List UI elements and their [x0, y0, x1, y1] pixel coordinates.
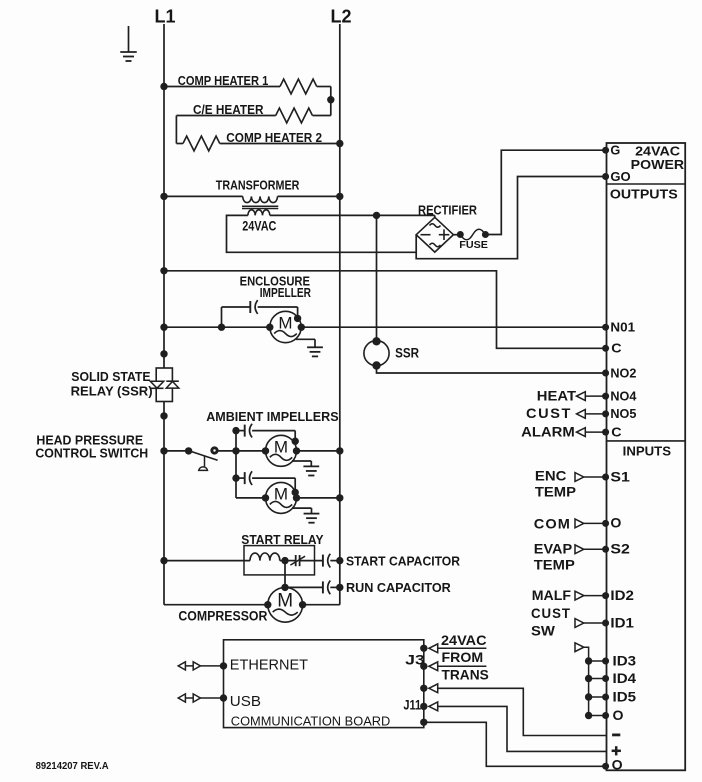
connector J3 pin 1 — [420, 645, 427, 652]
svg-text:24VAC: 24VAC — [635, 144, 680, 158]
svg-text:INPUTS: INPUTS — [623, 444, 671, 458]
svg-text:O: O — [612, 757, 623, 772]
svg-text:L1: L1 — [155, 7, 176, 27]
svg-text:M: M — [277, 590, 293, 611]
ground enclosure impeller — [296, 338, 315, 340]
ground ambient impeller 1 — [292, 460, 311, 462]
wire L1 to compressor — [164, 604, 268, 606]
node junction start relay / compressor start winding — [281, 557, 288, 564]
wire switch to impeller branch — [217, 450, 236, 452]
wire ambient branch vertical — [235, 431, 237, 498]
resistor COMP HEATER 2 — [176, 143, 183, 145]
wire L2 bus — [339, 24, 341, 605]
wire rectifier plus to fuse — [453, 234, 457, 236]
node junction compressor top / run capacitor — [281, 584, 288, 591]
fuse F1 — [457, 231, 464, 238]
terminal G — [602, 147, 609, 154]
wire impeller2 row — [236, 497, 266, 499]
svg-text:RUN CAPACITOR: RUN CAPACITOR — [346, 580, 451, 595]
svg-text:COMP HEATER 2: COMP HEATER 2 — [226, 130, 322, 145]
svg-text:C/E HEATER: C/E HEATER — [193, 102, 264, 117]
SSR coil (relay actuator) — [376, 215, 378, 341]
svg-text:ID4: ID4 — [613, 671, 637, 686]
wire C/E heater right — [330, 100, 332, 116]
svg-text:SOLID STATE: SOLID STATE — [71, 369, 151, 384]
svg-text:ENC: ENC — [535, 468, 567, 483]
svg-text:NO2: NO2 — [610, 366, 636, 380]
terminal plus — [612, 750, 621, 753]
terminal C — [602, 345, 609, 352]
terminal ID2 / MALF input — [602, 592, 609, 599]
svg-text:G: G — [610, 144, 620, 158]
svg-text:24VAC: 24VAC — [242, 218, 276, 234]
solid state relay box — [156, 368, 172, 402]
svg-text:TRANSFORMER: TRANSFORMER — [216, 177, 300, 192]
diode SSR right (anode bottom) — [166, 381, 179, 388]
svg-text:ID5: ID5 — [613, 689, 637, 704]
node junction L1 / start relay — [160, 557, 167, 564]
svg-text:FROM: FROM — [442, 649, 484, 665]
wire fuse to G terminal — [485, 150, 605, 234]
svg-text:RELAY (SSR): RELAY (SSR) — [71, 384, 153, 399]
terminal O (jumper) — [602, 712, 609, 719]
node junction L2 / comp heater 2 — [336, 140, 343, 147]
resistor C/E HEATER — [313, 115, 331, 117]
terminal ID4 — [602, 675, 609, 682]
svg-text:ID1: ID1 — [610, 615, 634, 630]
svg-text:NO5: NO5 — [610, 407, 636, 421]
svg-text:GO: GO — [610, 170, 631, 184]
rectifier BR1 bridge — [416, 217, 453, 252]
svg-text:M: M — [274, 437, 288, 456]
svg-text:TRANS: TRANS — [442, 667, 489, 683]
wire SSR to NO2 — [377, 366, 606, 374]
connector pin minus wire — [420, 685, 427, 692]
terminal minus — [612, 734, 620, 737]
svg-text:ETHERNET: ETHERNET — [230, 656, 308, 673]
svg-text:COMMUNICATION BOARD: COMMUNICATION BOARD — [231, 714, 390, 728]
diode SSR left (anode top) — [150, 381, 163, 388]
node junction L1 / C-wire — [160, 267, 167, 274]
wire rectifier minus to GO — [416, 177, 605, 259]
svg-text:L2: L2 — [331, 7, 352, 27]
transformer T1 core — [242, 205, 278, 207]
wire 24VAC secondary top to rectifier — [270, 214, 435, 216]
resistor COMP HEATER 1 — [280, 79, 317, 94]
motor ambient impeller 2 — [266, 482, 297, 513]
wire enclosure impeller row / N01 wire — [164, 326, 270, 328]
switch diaphragm actuator — [204, 456, 206, 467]
motor compressor — [268, 587, 303, 622]
terminal O / COM input — [602, 520, 609, 527]
capacitor ambient impeller 2 — [232, 474, 239, 481]
svg-text:ID2: ID2 — [610, 588, 634, 603]
node junction cap branch — [218, 324, 225, 331]
svg-text:COM: COM — [534, 516, 571, 531]
node junction L2 / impeller1 — [336, 447, 343, 454]
svg-text:HEAT: HEAT — [537, 388, 577, 403]
svg-text:SW: SW — [531, 624, 555, 639]
wire L1 to C terminal — [164, 271, 606, 349]
panel divider OUTPUTS/INPUTS — [607, 440, 686, 442]
node junction L2 / impeller2 — [336, 494, 343, 501]
svg-text:FUSE: FUSE — [459, 239, 488, 251]
svg-text:C: C — [611, 342, 621, 356]
svg-text:SSR: SSR — [395, 346, 419, 361]
svg-text:N01: N01 — [610, 321, 635, 335]
connector bottom pin / O wire — [420, 719, 427, 726]
start relay NC contact — [285, 560, 296, 562]
svg-text:CONTROL SWITCH: CONTROL SWITCH — [35, 445, 148, 460]
svg-text:IMPELLER: IMPELLER — [260, 285, 312, 300]
node junction switch / cap branch — [232, 447, 239, 454]
svg-text:OUTPUTS: OUTPUTS — [610, 188, 678, 202]
svg-text:O: O — [613, 708, 624, 723]
motor enclosure impeller — [270, 311, 301, 342]
wire transformer primary — [164, 195, 243, 197]
terminal S2 / EVAP TEMP input — [602, 546, 609, 553]
transformer T1 secondary coil — [248, 210, 270, 216]
wire L1 to start relay coil — [164, 560, 250, 562]
transformer T1 primary coil — [243, 196, 278, 202]
terminal NO2 — [602, 370, 609, 377]
terminal NO4 / HEAT output — [602, 393, 609, 400]
svg-text:EVAP: EVAP — [534, 541, 572, 556]
svg-text:TEMP: TEMP — [535, 485, 576, 500]
svg-text:START RELAY: START RELAY — [241, 532, 324, 547]
terminal C / ALARM output — [602, 429, 609, 436]
svg-text:USB: USB — [230, 693, 261, 710]
svg-text:C: C — [611, 425, 621, 439]
switch contact — [212, 448, 217, 453]
node junction L1 / transformer primary — [160, 193, 167, 200]
svg-text:COMPRESSOR: COMPRESSOR — [178, 609, 267, 624]
node junction L2 / start capacitor — [336, 557, 343, 564]
wire L2 to compressor — [303, 604, 340, 606]
ground ambient impeller 2 — [292, 507, 312, 509]
node junction L1 / switch — [160, 447, 167, 454]
node junction secondary / SSR control — [373, 212, 380, 219]
node junction L1 / comp heater 1 — [160, 83, 167, 90]
start relay coil — [250, 553, 280, 561]
wire L1 bus — [163, 24, 165, 368]
terminal S1 / ENC TEMP input — [602, 474, 609, 481]
svg-text:89214207 REV.A: 89214207 REV.A — [36, 760, 109, 772]
wire C/E heater left — [176, 115, 275, 117]
terminal ID1 / CUST SW input — [602, 620, 609, 627]
svg-text:COMP HEATER 1: COMP HEATER 1 — [178, 73, 268, 88]
wire 24VAC secondary left loop — [227, 215, 417, 252]
capacitor enclosure impeller — [221, 307, 223, 327]
node junction heater1/heater2 — [327, 96, 334, 103]
svg-text:24VAC: 24VAC — [441, 632, 487, 648]
svg-text:CUST: CUST — [526, 406, 572, 421]
ground (chassis, top left) — [128, 26, 130, 52]
input jumper arrow — [575, 643, 584, 652]
svg-text:J11: J11 — [403, 698, 421, 713]
terminal GO — [602, 173, 609, 180]
node SSR top terminal — [160, 350, 167, 357]
ethernet port — [220, 662, 227, 669]
capacitor ambient impeller 1 — [232, 427, 239, 434]
connector J3 pin 2 — [420, 663, 427, 670]
node junction L2 / run capacitor — [336, 584, 343, 591]
wire comp heater 2 to L2 — [220, 143, 340, 145]
communication board box — [224, 640, 424, 728]
svg-text:O: O — [610, 516, 621, 531]
node junction L1 / enclosure impeller — [160, 324, 167, 331]
terminal ID3 — [602, 658, 609, 665]
svg-text:RECTIFIER: RECTIFIER — [418, 203, 478, 218]
wire impeller1 row — [236, 450, 266, 452]
svg-text:ID3: ID3 — [613, 653, 637, 668]
terminal ID5 — [602, 694, 609, 701]
svg-text:ALARM: ALARM — [521, 424, 575, 439]
svg-text:M: M — [274, 484, 288, 503]
wire comp heater 1 — [164, 86, 280, 88]
terminal O (bottom) — [602, 763, 609, 770]
USB port — [220, 694, 227, 701]
svg-text:MALF: MALF — [532, 588, 571, 603]
node SSR bottom terminal — [160, 412, 167, 419]
capacitor run capacitor — [285, 586, 323, 588]
svg-text:S1: S1 — [610, 469, 630, 484]
wire start relay to compressor — [284, 561, 286, 588]
svg-text:TEMP: TEMP — [534, 557, 575, 572]
svg-text:M: M — [278, 314, 292, 333]
svg-text:NO4: NO4 — [610, 389, 636, 403]
svg-text:AMBIENT IMPELLERS: AMBIENT IMPELLERS — [206, 409, 339, 424]
switch blade (head pressure) — [191, 451, 218, 460]
control board outline — [607, 143, 686, 770]
panel divider 24VAC/OUTPUTS — [607, 183, 686, 185]
svg-text:POWER: POWER — [631, 158, 684, 172]
capacitor start capacitor — [322, 555, 324, 567]
terminal NO5 / CUST output — [602, 410, 609, 417]
start relay box — [244, 546, 315, 575]
node junction L2 / transformer primary — [336, 193, 343, 200]
svg-text:START CAPACITOR: START CAPACITOR — [346, 553, 461, 568]
svg-text:S2: S2 — [610, 542, 630, 557]
svg-text:CUST: CUST — [531, 606, 571, 621]
motor ambient impeller 1 — [266, 435, 297, 466]
wire L1 to switch contact — [164, 450, 189, 452]
connector J11 pin / plus wire — [420, 703, 427, 710]
terminal N01 — [602, 324, 609, 331]
